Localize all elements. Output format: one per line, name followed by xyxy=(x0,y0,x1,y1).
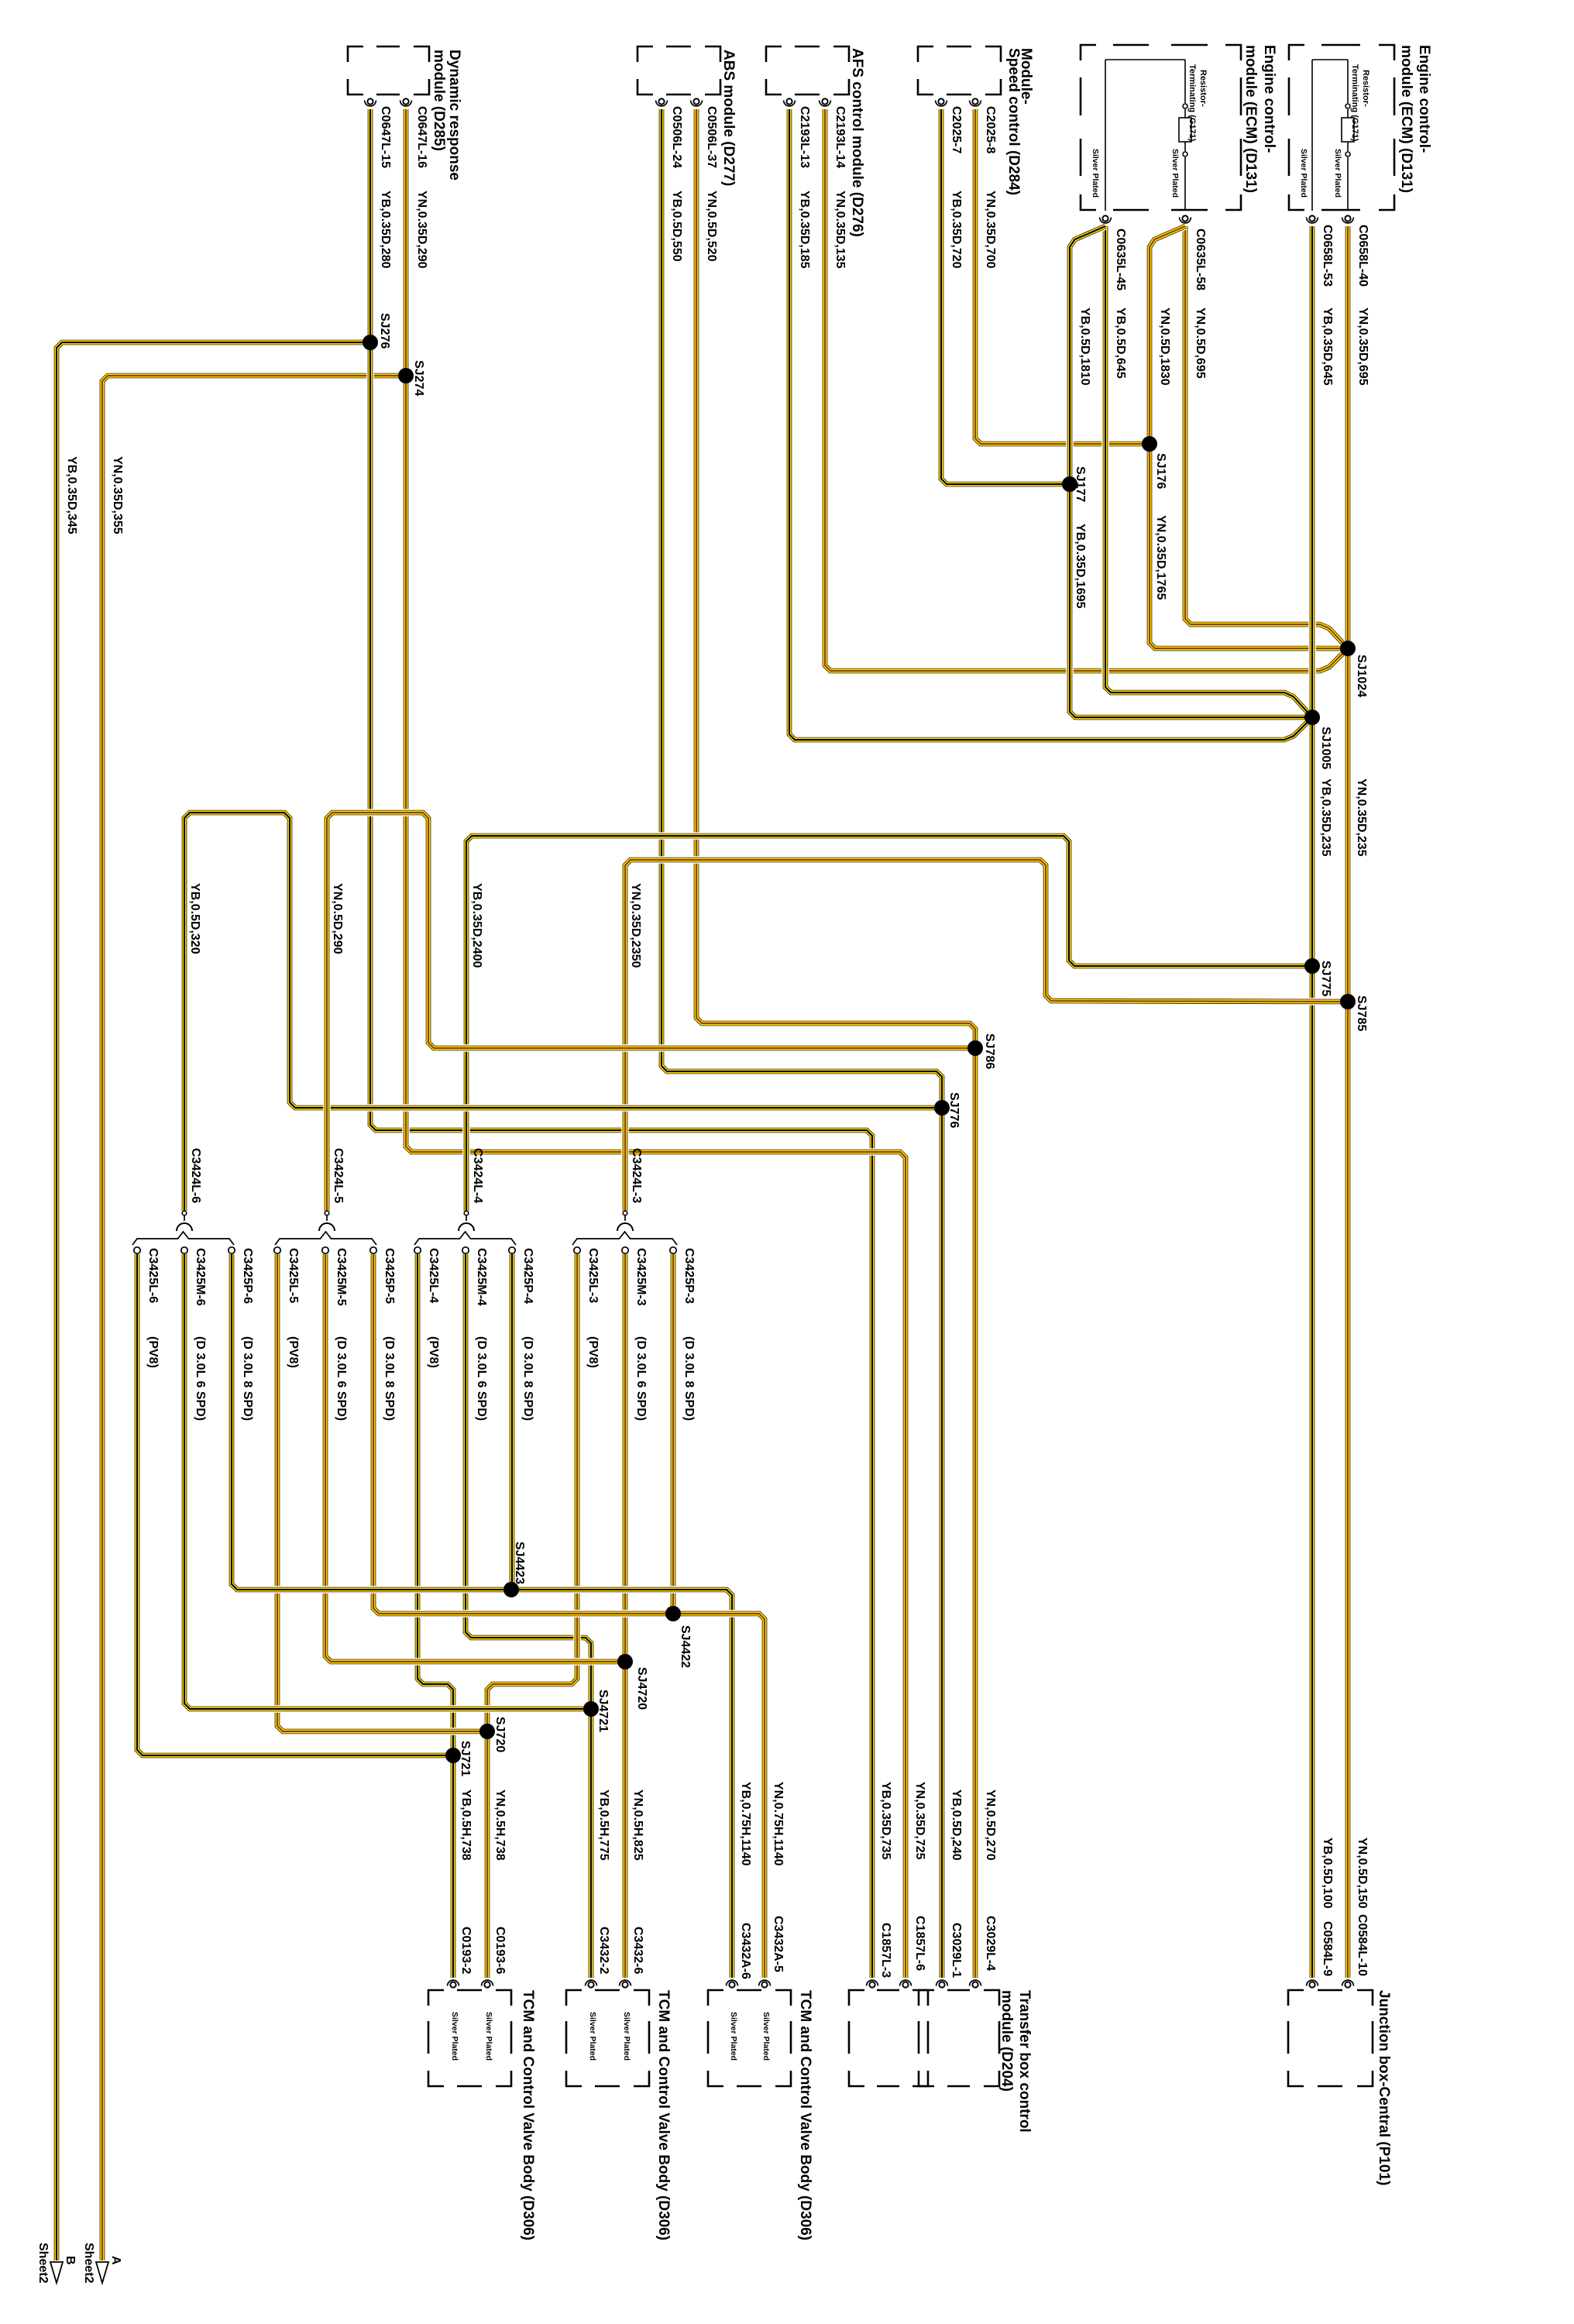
module box C1857L xyxy=(849,1990,928,2086)
wire YN,0.5D,290 C3424L-5 to SJ786 xyxy=(327,813,975,1211)
svg-text:Junction box-Central (P101): Junction box-Central (P101) xyxy=(1376,1990,1392,2185)
svg-text:C0647L-16: C0647L-16 xyxy=(415,106,428,168)
splice SJ177 xyxy=(1062,476,1077,492)
svg-text:YB,0.35D,185: YB,0.35D,185 xyxy=(798,191,811,269)
svg-text:YN,0.5H,738: YN,0.5H,738 xyxy=(493,1789,507,1861)
svg-text:C0584L-9: C0584L-9 xyxy=(1321,1921,1334,1976)
svg-text:B: B xyxy=(64,2256,77,2265)
svg-text:C3424L-5: C3424L-5 xyxy=(332,1148,345,1203)
wire C0506L-24 YB,0.5D,550 to SJ776 xyxy=(662,109,942,1108)
wire C0635L-45 YB,0.5D,645 to SJ1005 xyxy=(1105,226,1312,717)
connector C0506L-24 xyxy=(656,98,668,106)
module box TCM PV8 (D306) xyxy=(428,1990,511,2086)
off-sheet arrow Sheet2 A xyxy=(96,2262,108,2283)
svg-text:C3425L-3: C3425L-3 xyxy=(586,1248,600,1303)
svg-text:C3029L-4: C3029L-4 xyxy=(984,1916,997,1971)
module box AFS (D276) xyxy=(766,46,849,95)
svg-text:YB,0.35D,1695: YB,0.35D,1695 xyxy=(1074,524,1087,609)
svg-text:C3425P-5: C3425P-5 xyxy=(383,1248,396,1304)
resistor R Terminating G171 (C0658L) xyxy=(1342,60,1354,211)
svg-text:C0658L-40: C0658L-40 xyxy=(1356,225,1370,287)
module box ECM D131 (C0635L) xyxy=(1081,45,1241,210)
svg-text:YB,0.35D,735: YB,0.35D,735 xyxy=(879,1782,892,1860)
svg-text:SJ775: SJ775 xyxy=(1319,961,1332,996)
svg-text:SJ721: SJ721 xyxy=(459,1741,472,1776)
svg-text:TCM and Control Valve Body (D3: TCM and Control Valve Body (D306) xyxy=(797,1990,813,2240)
svg-text:C0584L-10: C0584L-10 xyxy=(1356,1914,1369,1976)
splice SJ4720 xyxy=(617,1654,633,1669)
svg-text:YN,0.5D,695: YN,0.5D,695 xyxy=(1194,308,1207,379)
splice SJ775 xyxy=(1304,958,1320,974)
svg-text:C3425M-3: C3425M-3 xyxy=(634,1248,648,1306)
svg-text:(D 3.0L 6 SPD): (D 3.0L 6 SPD) xyxy=(194,1336,207,1421)
connector C3425M-4 xyxy=(462,1247,469,1253)
wire YB,0.5D,320 C3424L-6 to SJ776 xyxy=(184,813,942,1211)
connector C3425M-3 xyxy=(622,1247,628,1253)
connector C1857L-6 xyxy=(900,1980,912,1988)
connector C0584L-9 xyxy=(1307,1980,1318,1988)
svg-text:Sheet2: Sheet2 xyxy=(82,2243,95,2284)
svg-text:(PV8): (PV8) xyxy=(586,1336,600,1368)
connector C0658L-40 xyxy=(1342,215,1354,223)
svg-text:Transfer box control: Transfer box control xyxy=(1016,1990,1033,2133)
svg-text:module (D204): module (D204) xyxy=(998,1990,1015,2092)
svg-text:YN,0.5D,520: YN,0.5D,520 xyxy=(705,191,718,262)
module box TCM 8SPD (D306) xyxy=(708,1990,791,2086)
connector C2193L-13 xyxy=(784,98,796,106)
wire C3425P-3 to SJ4422 xyxy=(669,1254,677,1614)
wire C2193L-13 YB,0.35D,185 to SJ1005 xyxy=(789,109,1312,740)
svg-text:C3424L-4: C3424L-4 xyxy=(471,1148,484,1203)
svg-text:Engine control-: Engine control- xyxy=(1416,45,1432,153)
splice SJ276 xyxy=(363,335,378,350)
svg-text:(D 3.0L 6 SPD): (D 3.0L 6 SPD) xyxy=(634,1336,648,1421)
svg-text:SJ1005: SJ1005 xyxy=(1319,727,1332,769)
svg-text:SJ786: SJ786 xyxy=(983,1033,996,1069)
svg-text:ABS module (D277): ABS module (D277) xyxy=(720,50,737,186)
wire YB,0.5D,240 SJ776 to C3029L-1 xyxy=(938,1108,946,1978)
svg-text:YN,0.35D,290: YN,0.35D,290 xyxy=(415,191,428,269)
svg-text:YB,0.5D,1810: YB,0.5D,1810 xyxy=(1078,308,1091,386)
svg-text:C3432A-5: C3432A-5 xyxy=(772,1916,785,1972)
resistor link wire G171 (C0658L) xyxy=(1312,59,1348,60)
connector C3425M-6 xyxy=(181,1247,187,1253)
wire C0647L-15 YB,0.35D,280/735 to C1857L-3 xyxy=(370,109,872,1978)
svg-text:YB,0.5D,645: YB,0.5D,645 xyxy=(1114,308,1127,379)
resistor link wire G171 (C0635L) xyxy=(1105,59,1185,60)
splice SJ1005 xyxy=(1304,710,1320,725)
svg-text:YN,0.35D,700: YN,0.35D,700 xyxy=(984,191,997,269)
svg-text:Terminating (G171): Terminating (G171) xyxy=(1350,64,1359,142)
svg-text:YB,0.35D,235: YB,0.35D,235 xyxy=(1319,779,1332,857)
svg-text:YN,0.35D,695: YN,0.35D,695 xyxy=(1356,308,1370,386)
connector C0647L-16 xyxy=(400,98,412,106)
svg-text:(PV8): (PV8) xyxy=(427,1336,440,1368)
svg-text:(D 3.0L 6 SPD): (D 3.0L 6 SPD) xyxy=(335,1336,348,1421)
wire C0658L-40 YN trunk to C0584L-10 xyxy=(1344,226,1352,1978)
svg-text:(D 3.0L 8 SPD): (D 3.0L 8 SPD) xyxy=(383,1336,396,1421)
svg-text:C0647L-15: C0647L-15 xyxy=(379,106,392,168)
svg-text:C3425L-6: C3425L-6 xyxy=(146,1248,160,1303)
svg-text:YN,0.5H,825: YN,0.5H,825 xyxy=(631,1789,644,1861)
svg-text:YB,0.5H,738: YB,0.5H,738 xyxy=(459,1789,473,1861)
wire C3425L-3 via SJ720 to C0193-6 xyxy=(487,1254,577,1978)
svg-text:SJ1024: SJ1024 xyxy=(1355,655,1368,697)
splice SJ4423 xyxy=(503,1582,519,1597)
splice SJ274 xyxy=(398,368,414,383)
svg-text:C2025-8: C2025-8 xyxy=(984,106,997,153)
inline connector C3424L-6 xyxy=(177,1211,192,1231)
svg-text:C3432-6: C3432-6 xyxy=(631,1927,644,1974)
svg-text:C3424L-3: C3424L-3 xyxy=(630,1148,643,1203)
splice SJ785 xyxy=(1340,994,1356,1009)
svg-text:(D 3.0L 8 SPD): (D 3.0L 8 SPD) xyxy=(682,1336,696,1421)
wire C3425M-3 via SJ4720 to C3432-6 xyxy=(621,1254,629,1978)
connector C0658L-53 xyxy=(1307,215,1318,223)
svg-text:SJ785: SJ785 xyxy=(1355,995,1368,1031)
inline connector C3424L-3 xyxy=(617,1211,633,1231)
inline connector C3424L-4 xyxy=(459,1211,474,1231)
wire C3425M-4 via SJ4721 to C3432-2 xyxy=(466,1254,591,1978)
svg-text:C1857L-3: C1857L-3 xyxy=(879,1923,892,1978)
svg-text:SJ720: SJ720 xyxy=(493,1717,507,1752)
svg-text:Speed control (D284): Speed control (D284) xyxy=(1005,48,1022,195)
splice SJ786 xyxy=(967,1040,983,1056)
wire C2193L-14 YN,0.35D,135 to SJ1024 xyxy=(825,109,1348,671)
svg-text:SJ274: SJ274 xyxy=(412,360,425,396)
svg-text:C0658L-53: C0658L-53 xyxy=(1321,225,1334,287)
svg-text:SJ776: SJ776 xyxy=(947,1092,961,1128)
svg-text:YB,0.35D,720: YB,0.35D,720 xyxy=(950,191,963,269)
svg-text:YB,0.5D,550: YB,0.5D,550 xyxy=(670,191,683,262)
wire C0647L-16 YN,0.35D,290/725 to C1857L-6 xyxy=(406,109,906,1978)
wire C3425L-6 PV8 to SJ721 xyxy=(137,1254,453,1755)
svg-text:module (ECM) (D131): module (ECM) (D131) xyxy=(1242,45,1259,193)
connector C0506L-37 xyxy=(691,98,703,106)
svg-text:Dynamic response: Dynamic response xyxy=(446,50,462,180)
connector C3425P-6 xyxy=(229,1247,235,1253)
connector C3425L-5 xyxy=(274,1247,280,1253)
wire C3425M-6 to SJ4721 xyxy=(184,1254,591,1709)
svg-text:SJ4423: SJ4423 xyxy=(513,1542,526,1584)
svg-text:C3425P-3: C3425P-3 xyxy=(682,1248,696,1304)
svg-text:Sheet2: Sheet2 xyxy=(36,2243,50,2284)
svg-text:YB,0.35D,345: YB,0.35D,345 xyxy=(65,456,78,535)
wire C0635L-58 YN,0.5D,695 to SJ1024 xyxy=(1185,226,1348,648)
svg-text:C3425M-6: C3425M-6 xyxy=(194,1248,207,1306)
svg-text:C2193L-14: C2193L-14 xyxy=(833,106,847,168)
module box TCM 6SPD (D306) xyxy=(566,1990,649,2086)
svg-text:YN,0.5D,290: YN,0.5D,290 xyxy=(331,883,344,954)
wire YN,0.5D,270 SJ786 to C3029L-4 xyxy=(971,1048,979,1978)
svg-text:C3424L-6: C3424L-6 xyxy=(189,1148,202,1203)
svg-text:SJ177: SJ177 xyxy=(1074,466,1087,502)
svg-text:SJ4720: SJ4720 xyxy=(635,1667,648,1710)
connector C3432-6 xyxy=(620,1980,631,1988)
connector C1857L-3 xyxy=(867,1980,878,1988)
svg-text:Silver Plated: Silver Plated xyxy=(484,2012,493,2061)
svg-text:Silver Plated: Silver Plated xyxy=(1299,149,1308,198)
svg-text:C0193-2: C0193-2 xyxy=(459,1927,473,1974)
svg-text:C0635L-58: C0635L-58 xyxy=(1194,229,1207,290)
svg-text:(PV8): (PV8) xyxy=(146,1336,160,1368)
splice SJ4422 xyxy=(665,1606,681,1621)
module box Dynamic response (D285) xyxy=(348,46,429,95)
wire YN,0.75H,1140 SJ4422 to C3432A-5 xyxy=(673,1614,765,1978)
connector C3425L-3 xyxy=(574,1247,580,1253)
svg-text:Resistor-: Resistor- xyxy=(1361,70,1370,107)
wire C3425M-5 to SJ4720 xyxy=(325,1254,625,1662)
svg-text:Silver Plated: Silver Plated xyxy=(622,2012,631,2061)
wire YB,0.35D,2400 SJ775 to C3424L-4 xyxy=(466,836,1312,1211)
splice SJ776 xyxy=(934,1100,950,1116)
svg-text:TCM and Control Valve Body (D3: TCM and Control Valve Body (D306) xyxy=(655,1990,672,2240)
svg-text:(D 3.0L 8 SPD): (D 3.0L 8 SPD) xyxy=(521,1336,534,1421)
svg-text:C3425L-5: C3425L-5 xyxy=(287,1248,300,1303)
wire C3425L-4 via SJ721 to C0193-2 xyxy=(418,1254,453,1978)
connector C3425L-4 xyxy=(414,1247,421,1253)
wire YN,0.5D,1830/0.35D,1765 via SJ176 to SJ1024 xyxy=(1150,226,1348,648)
svg-text:Silver Plated: Silver Plated xyxy=(1333,149,1342,198)
connector C0193-6 xyxy=(482,1980,493,1988)
svg-text:YN,0.35D,725: YN,0.35D,725 xyxy=(913,1782,926,1860)
svg-text:YB,0.5D,240: YB,0.5D,240 xyxy=(950,1789,963,1861)
svg-text:(PV8): (PV8) xyxy=(287,1336,300,1368)
svg-text:C1857L-6: C1857L-6 xyxy=(913,1916,926,1971)
resistor R Terminating G171 (C0635L) xyxy=(1179,60,1191,211)
wire C3425P-6 to SJ4423 xyxy=(232,1254,511,1590)
wire YN,0.35D,2350 SJ785 to C3424L-3 xyxy=(625,860,1348,1211)
svg-text:C0506L-37: C0506L-37 xyxy=(705,106,718,168)
connector C0584L-10 xyxy=(1342,1980,1354,1988)
wire C2025-8 YN,0.35D,700 to SJ176 xyxy=(975,109,1150,444)
svg-text:YN,0.5D,270: YN,0.5D,270 xyxy=(984,1789,997,1861)
svg-text:C3432-2: C3432-2 xyxy=(597,1927,610,1974)
svg-text:YN,0.35D,355: YN,0.35D,355 xyxy=(111,456,124,535)
svg-text:YB,0.5D,320: YB,0.5D,320 xyxy=(188,883,201,954)
splice SJ1024 xyxy=(1340,641,1356,656)
svg-text:YB,0.75H,1140: YB,0.75H,1140 xyxy=(739,1782,752,1866)
svg-text:C3029L-1: C3029L-1 xyxy=(950,1923,963,1978)
svg-text:Silver Plated: Silver Plated xyxy=(1170,149,1180,198)
connector C2193L-14 xyxy=(820,98,831,106)
connector C3432A-6 xyxy=(727,1980,738,1988)
connector C3432A-5 xyxy=(759,1980,771,1988)
connector C3425L-6 xyxy=(134,1247,140,1253)
wire C0658L-53 YB trunk to C0584L-9 xyxy=(1308,226,1316,1978)
svg-text:YN,0.75H,1140: YN,0.75H,1140 xyxy=(772,1782,785,1866)
brace connector group -4 xyxy=(414,1232,516,1245)
svg-text:YN,0.35D,235: YN,0.35D,235 xyxy=(1355,779,1368,857)
svg-text:YB,0.35D,280: YB,0.35D,280 xyxy=(379,191,392,269)
wire C3425P-4 to SJ4423 xyxy=(508,1254,516,1590)
splice SJ176 xyxy=(1142,436,1157,452)
wire C3425L-5 PV8 to SJ720 xyxy=(277,1254,487,1731)
connector C2025-7 xyxy=(936,98,947,106)
connector C3425P-4 xyxy=(509,1247,515,1253)
module box Speed control (D284) xyxy=(918,46,1001,95)
svg-text:Engine control-: Engine control- xyxy=(1261,45,1277,153)
svg-text:C0506L-24: C0506L-24 xyxy=(670,106,683,168)
module box ECM D131 (C0658L) xyxy=(1289,45,1394,210)
connector C3029L-1 xyxy=(936,1980,948,1988)
svg-text:A: A xyxy=(109,2256,122,2265)
svg-text:C0193-6: C0193-6 xyxy=(493,1927,507,1974)
svg-text:YN,0.5D,150: YN,0.5D,150 xyxy=(1356,1838,1369,1909)
svg-text:(D 3.0L 8 SPD): (D 3.0L 8 SPD) xyxy=(241,1336,254,1421)
brace connector group -6 xyxy=(132,1232,234,1245)
module box Junction box (P101) xyxy=(1288,1990,1373,2086)
svg-text:SJ176: SJ176 xyxy=(1154,453,1167,489)
svg-text:C3425P-6: C3425P-6 xyxy=(241,1248,254,1304)
svg-text:SJ4422: SJ4422 xyxy=(679,1625,692,1668)
splice SJ721 xyxy=(445,1748,461,1763)
svg-text:module (D285): module (D285) xyxy=(431,50,447,151)
module box ABS (D277) xyxy=(638,46,720,95)
svg-text:C3425L-4: C3425L-4 xyxy=(427,1248,440,1303)
brace connector group -3 xyxy=(572,1232,677,1245)
connector C3425P-3 xyxy=(670,1247,676,1253)
svg-text:Silver Plated: Silver Plated xyxy=(588,2012,597,2061)
svg-text:YB,0.35D,645: YB,0.35D,645 xyxy=(1321,308,1334,386)
svg-text:AFS control module (D276): AFS control module (D276) xyxy=(849,48,865,237)
svg-text:TCM and Control Valve Body (D3: TCM and Control Valve Body (D306) xyxy=(520,1990,536,2240)
svg-text:YN,0.5D,1830: YN,0.5D,1830 xyxy=(1158,308,1171,386)
connector C0635L-58 xyxy=(1180,215,1191,223)
svg-text:YB,0.5D,100: YB,0.5D,100 xyxy=(1321,1838,1334,1909)
wire C2025-7 YB,0.35D,720 to SJ177 xyxy=(941,109,1070,484)
brace connector group -5 xyxy=(275,1232,376,1245)
svg-text:YN,0.35D,135: YN,0.35D,135 xyxy=(833,191,847,269)
svg-text:C0635L-45: C0635L-45 xyxy=(1114,229,1127,290)
svg-text:C3425M-4: C3425M-4 xyxy=(475,1248,488,1306)
svg-text:C2025-7: C2025-7 xyxy=(950,106,963,153)
connector C3425P-5 xyxy=(370,1247,376,1253)
wire YB,0.5D,1810/0.35D,1695 via SJ177 to SJ1005 xyxy=(1070,226,1312,717)
svg-text:Silver Plated: Silver Plated xyxy=(1091,149,1100,198)
splice SJ4721 xyxy=(583,1701,599,1717)
svg-text:Silver Plated: Silver Plated xyxy=(729,2012,738,2061)
svg-text:YB,0.35D,2400: YB,0.35D,2400 xyxy=(470,883,483,968)
svg-text:YN,0.35D,1765: YN,0.35D,1765 xyxy=(1154,515,1167,600)
svg-text:Silver Plated: Silver Plated xyxy=(450,2012,459,2061)
connector C0635L-45 xyxy=(1100,215,1112,223)
wire C3425P-5 to SJ4422 xyxy=(373,1254,673,1614)
inline connector C3424L-5 xyxy=(319,1211,335,1231)
connector C0193-2 xyxy=(448,1980,459,1988)
svg-text:Resistor-: Resistor- xyxy=(1198,70,1208,107)
svg-text:YB,0.5H,775: YB,0.5H,775 xyxy=(597,1789,610,1861)
svg-text:C2193L-13: C2193L-13 xyxy=(798,106,811,168)
connector C2025-8 xyxy=(970,98,981,106)
svg-text:(D 3.0L 6 SPD): (D 3.0L 6 SPD) xyxy=(475,1336,488,1421)
svg-text:Terminating (G171): Terminating (G171) xyxy=(1187,64,1197,142)
wire YN,0.35D,355 SJ274 to Sheet2 A xyxy=(102,376,406,2260)
connector C3029L-4 xyxy=(970,1980,981,1988)
svg-text:C3432A-6: C3432A-6 xyxy=(739,1923,752,1979)
svg-text:SJ4721: SJ4721 xyxy=(596,1690,610,1732)
svg-text:YN,0.35D,2350: YN,0.35D,2350 xyxy=(629,883,642,968)
svg-text:Silver Plated: Silver Plated xyxy=(761,2012,771,2061)
svg-text:module (ECM) (D131): module (ECM) (D131) xyxy=(1398,45,1414,193)
module box Transfer box (D204) xyxy=(919,1990,999,2086)
svg-text:C3425P-4: C3425P-4 xyxy=(521,1248,534,1304)
off-sheet arrow Sheet2 B xyxy=(50,2262,63,2283)
connector C3432-2 xyxy=(586,1980,597,1988)
connector C0647L-15 xyxy=(365,98,376,105)
wire YB,0.35D,345 SJ276 to Sheet2 B xyxy=(57,342,370,2260)
wire C0506L-37 YN,0.5D,520 to SJ786 xyxy=(696,109,975,1048)
svg-text:SJ276: SJ276 xyxy=(378,313,391,349)
splice SJ720 xyxy=(479,1724,495,1739)
connector C3425M-5 xyxy=(322,1247,328,1253)
wire YB,0.75H,1140 SJ4423 to C3432A-6 xyxy=(511,1590,732,1978)
svg-text:C3425M-5: C3425M-5 xyxy=(335,1248,348,1306)
